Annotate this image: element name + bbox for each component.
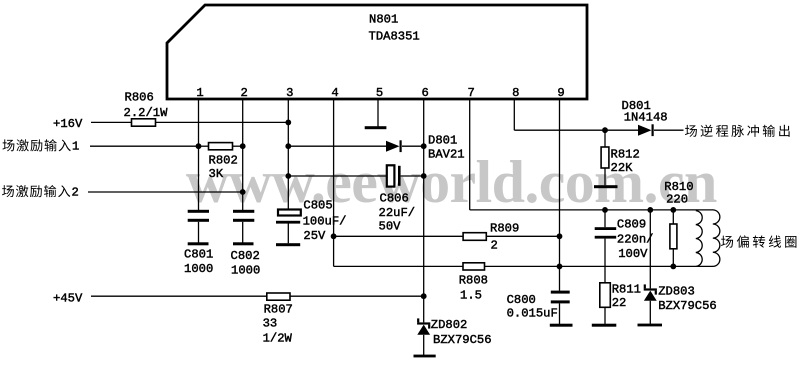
- wire C809 to R811: [604, 239, 606, 283]
- wire input2 to pin2 column: [88, 191, 243, 193]
- wire +16V to R806: [91, 121, 132, 123]
- node 场激励输入1 label: [2, 139, 79, 153]
- junction C806/pin6: [421, 173, 427, 179]
- svg-text:R802: R802: [209, 154, 238, 168]
- wire ZD802 to ground: [423, 335, 425, 356]
- junction top rail/C809: [602, 207, 608, 213]
- svg-text:22uF/: 22uF/: [379, 206, 416, 220]
- svg-text:TDA8351: TDA8351: [369, 30, 420, 44]
- resistor R812: [601, 147, 609, 168]
- deflection coil 场偏转线圈 (two windings): [696, 211, 702, 267]
- wire pin7 to coil (top rail): [470, 209, 713, 211]
- junction R802/pin2: [240, 143, 246, 149]
- capacitor C805 (electrolytic): [278, 210, 301, 216]
- wire top rail to R810: [672, 210, 674, 224]
- junction D801/pin6: [421, 143, 427, 149]
- wire pin3 to C806: [288, 175, 387, 177]
- svg-text:C801: C801: [184, 248, 213, 262]
- svg-text:R808: R808: [459, 274, 488, 288]
- svg-text:BZX79C56: BZX79C56: [433, 333, 492, 347]
- svg-text:4: 4: [331, 86, 338, 100]
- wire C806 to pin6: [401, 175, 424, 177]
- zener diode ZD803: [644, 288, 657, 290]
- wire pin3 to D801 anode: [288, 145, 386, 147]
- wire pin9 column: [559, 99, 561, 291]
- diode D801 1N4148: [638, 125, 652, 136]
- wire pin2 column: [242, 99, 244, 210]
- svg-text:0.015uF: 0.015uF: [507, 307, 558, 321]
- svg-text:100uF/: 100uF/: [303, 214, 347, 228]
- svg-text:1000: 1000: [184, 262, 213, 276]
- wire ZD803 to ground: [649, 301, 651, 324]
- ground pin5: [365, 126, 387, 129]
- wire top rail to C809: [604, 210, 606, 227]
- svg-text:R807: R807: [264, 303, 293, 317]
- resistor R807: [267, 293, 290, 300]
- zener diode ZD802: [417, 322, 430, 324]
- ground C802: [233, 242, 254, 245]
- ground R812: [594, 185, 618, 188]
- svg-text:2.2/1W: 2.2/1W: [124, 106, 169, 120]
- svg-text:D801: D801: [428, 134, 457, 148]
- wire R812 to ground: [604, 168, 606, 185]
- ground ZD802: [414, 355, 436, 358]
- ground ZD803: [638, 324, 663, 327]
- wire R809 to pin9 column: [486, 235, 559, 237]
- wire pin6 to ZD802: [423, 296, 425, 322]
- wire D801 cathode to pin6: [402, 145, 424, 147]
- svg-text:2: 2: [72, 185, 79, 199]
- wire C800 to ground: [559, 303, 561, 324]
- diode D801 BAV21: [386, 141, 400, 152]
- wire C802 to ground: [242, 222, 244, 243]
- svg-text:C809: C809: [617, 217, 646, 231]
- junction R810/bottom rail: [670, 264, 676, 270]
- svg-text:33: 33: [263, 317, 278, 331]
- wire pin6 column: [423, 99, 425, 296]
- svg-text:100V: 100V: [618, 247, 648, 261]
- svg-text:1: 1: [72, 140, 79, 154]
- capacitor C806 (electrolytic, horizontal): [387, 165, 395, 186]
- svg-text:R812: R812: [611, 148, 640, 162]
- ground C801: [188, 242, 209, 245]
- wire to D801 1N4148 anode: [605, 129, 638, 131]
- junction +45V/pin6: [421, 293, 427, 299]
- junction input2/pin2: [240, 189, 246, 195]
- capacitor C800: [551, 291, 570, 294]
- junction pin4/R809: [331, 233, 337, 239]
- junction pin3/C806 row: [285, 173, 291, 179]
- resistor R809: [463, 233, 486, 241]
- svg-text:6: 6: [422, 86, 429, 100]
- svg-text:1.5: 1.5: [460, 289, 482, 303]
- svg-text:50V: 50V: [379, 220, 402, 234]
- svg-text:8: 8: [512, 86, 519, 100]
- junction pin8 row/R812: [602, 127, 608, 133]
- svg-text:22K: 22K: [611, 161, 634, 175]
- svg-text:R806: R806: [125, 91, 154, 105]
- svg-text:ZD803: ZD803: [658, 284, 695, 298]
- wire pin4 down to R808 row: [333, 236, 335, 266]
- resistor R806: [132, 119, 156, 126]
- junction input1/pin1: [196, 143, 202, 149]
- capacitor C801: [188, 210, 209, 213]
- svg-text:BZX79C56: BZX79C56: [658, 299, 717, 313]
- svg-text:2: 2: [491, 239, 498, 253]
- ground R811: [592, 324, 617, 327]
- junction pin3/diode row: [285, 143, 291, 149]
- junction top rail/ZD803: [647, 207, 653, 213]
- junction +16V/pin3: [285, 120, 291, 126]
- wire output node to R812: [604, 130, 606, 147]
- wire C805 to ground: [287, 224, 289, 244]
- svg-text:2: 2: [241, 86, 248, 100]
- wire pin3 column: [287, 99, 289, 210]
- svg-text:+16V: +16V: [53, 117, 83, 131]
- capacitor C809: [595, 227, 617, 230]
- svg-text:220: 220: [666, 193, 688, 207]
- svg-text:C802: C802: [231, 249, 260, 263]
- wire pin4 column: [333, 99, 335, 236]
- capacitor C802: [233, 210, 254, 213]
- wire top rail to ZD803: [649, 210, 651, 289]
- wire pin9 to coil (bottom rail): [560, 265, 714, 267]
- svg-text:R809: R809: [490, 222, 519, 236]
- svg-text:N801: N801: [369, 13, 398, 27]
- svg-text:25V: 25V: [303, 229, 326, 243]
- wire +45V to R807: [91, 295, 267, 297]
- wire pin5 stub: [377, 99, 379, 127]
- wire pin8 to output node: [514, 129, 605, 131]
- wire pin4 to R808: [334, 265, 463, 267]
- svg-text:+45V: +45V: [53, 291, 83, 305]
- wire pin1 to R802: [199, 145, 209, 147]
- svg-text:1000: 1000: [231, 264, 260, 278]
- wire pin1 column: [198, 99, 200, 210]
- op-amp/IC N801 TDA8351 body: [167, 5, 587, 99]
- svg-text:BAV21: BAV21: [428, 148, 465, 162]
- svg-text:9: 9: [557, 86, 564, 100]
- wire C801 to ground: [198, 222, 200, 243]
- resistor R808: [463, 263, 485, 270]
- wire R807 to pin6: [290, 295, 424, 297]
- svg-text:C805: C805: [303, 199, 332, 213]
- resistor R810: [670, 224, 677, 249]
- resistor R802: [209, 143, 233, 150]
- resistor R811: [600, 283, 611, 308]
- node 场激励输入2 label: [2, 185, 79, 199]
- wire R802 to pin2: [233, 145, 243, 147]
- wire R810 to bottom rail: [672, 249, 674, 267]
- svg-text:1N4148: 1N4148: [624, 111, 668, 125]
- node 场偏转线圈 label: [721, 235, 796, 247]
- svg-text:1: 1: [196, 86, 203, 100]
- svg-text:5: 5: [376, 86, 383, 100]
- wire pin7 column: [469, 99, 471, 210]
- wire pin8 stub: [513, 99, 515, 130]
- svg-text:ZD802: ZD802: [431, 318, 468, 332]
- svg-text:3: 3: [286, 86, 293, 100]
- junction top rail/R810: [670, 207, 676, 213]
- svg-text:7: 7: [468, 86, 475, 100]
- svg-text:R811: R811: [612, 283, 641, 297]
- junction R809/pin9: [557, 233, 563, 239]
- svg-text:22: 22: [612, 296, 627, 310]
- wire pin4 to R809: [334, 235, 464, 237]
- junction R808/pin9/coil return: [557, 264, 563, 270]
- wire R811 to ground: [604, 307, 606, 324]
- wire R808 to pin9 column: [485, 265, 560, 267]
- ground C800: [550, 324, 573, 327]
- wire R806 to pin3 column: [156, 121, 289, 123]
- wire D801 cathode to output label: [654, 129, 684, 131]
- svg-text:C806: C806: [380, 192, 409, 206]
- svg-text:220n/: 220n/: [617, 233, 654, 247]
- wire input1 to pin1: [90, 145, 199, 147]
- ground C805: [276, 243, 300, 246]
- svg-text:C800: C800: [507, 293, 536, 307]
- node 场逆程脉冲输出 label: [685, 125, 790, 137]
- svg-text:1/2W: 1/2W: [263, 332, 293, 346]
- svg-text:3K: 3K: [209, 167, 224, 181]
